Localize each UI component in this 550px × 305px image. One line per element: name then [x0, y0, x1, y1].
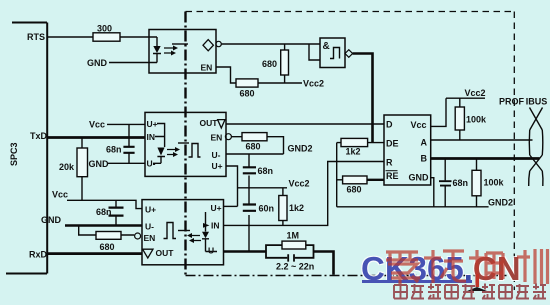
resistor 1k2 (pull-up on R line)	[282, 188, 284, 226]
barrier tick in U3	[178, 142, 189, 144]
optocoupler U1 (RTS) box	[149, 30, 216, 74]
resistor 680 (EN pull, horizontal)	[236, 79, 258, 87]
wire second input of AND gate	[309, 44, 320, 60]
dashed border right	[513, 12, 515, 291]
wire Vcc to U4 U+	[67, 200, 142, 208]
resistor R1 300	[93, 33, 120, 41]
isolation barrier (thick dash-dot)	[184, 12, 186, 276]
wire U+ of U3 down	[226, 166, 238, 206]
wire Vcc pin to Vcc2	[431, 98, 485, 126]
wire U- net GND2	[226, 153, 284, 155]
wire B line (thick)	[431, 157, 540, 160]
wire IN of U4 to R	[224, 162, 385, 226]
wire GND2 rail	[337, 206, 489, 208]
wire GND (thick) to U4 U-	[65, 224, 142, 227]
red antenna icon	[467, 274, 487, 291]
wire U+ of U4 up to Vcc2	[224, 205, 238, 207]
optocoupler U1 LED	[149, 37, 161, 63]
twisted pair braid	[529, 108, 543, 187]
dashed border top	[186, 11, 515, 13]
capacitor 60n	[248, 215, 250, 252]
wire GND to optocoupler U1	[109, 62, 149, 64]
wire RTS to resistor	[47, 36, 93, 38]
capacitor 68n (Vcc2-GND2)	[248, 154, 250, 204]
optocoupler U3 (TxD) box	[145, 112, 226, 176]
U3 LED	[153, 124, 165, 164]
wire RxD (thick)	[47, 252, 142, 255]
wire Vcc2 rail (mid)	[238, 187, 288, 189]
wire EN of U1 down to pull resistor	[216, 67, 236, 83]
wire Vcc to U3	[107, 123, 145, 125]
dash-dot border bottom	[186, 275, 510, 277]
capacitor 68n (B-GND2)	[444, 159, 446, 207]
optocoupler U4 (RxD) box	[142, 200, 224, 265]
optocoupler U1 output diamond	[203, 40, 213, 51]
capacitor 2.2~22n plates	[288, 254, 294, 261]
resistor 680 (EN of U3 to GND2)	[231, 137, 283, 154]
AND gate output diamond	[345, 50, 353, 58]
wire TxD (thick)	[47, 136, 145, 139]
wire AND output to DE (thick)	[353, 54, 373, 143]
red watermark overlay chars	[386, 249, 548, 284]
resistor 680 (EN of U4)	[79, 226, 135, 236]
wire GND pin to GND2	[431, 178, 434, 207]
monoflop pulse glyph	[330, 48, 340, 59]
wire pulls to GND2	[336, 143, 338, 207]
U3 schmitt pulse glyph	[189, 144, 201, 158]
wire GND to U3	[108, 162, 145, 164]
optocoupler U1 light arrows	[164, 48, 174, 53]
AND gate U2 with monoflop	[320, 38, 345, 68]
U4 light arrows (pointing left)	[191, 236, 201, 241]
U4 LED (right half)	[202, 212, 217, 252]
SPC3 chip edge bracket	[6, 23, 47, 274]
wire thick to bottom shield	[314, 252, 334, 275]
parallel RC loop	[266, 245, 314, 251]
U4 schmitt pulse glyph	[164, 223, 177, 239]
resistor 1M	[282, 241, 306, 249]
resistor 680 (vertical pull on RTS net)	[284, 44, 286, 83]
wire 680 to Vcc2	[258, 82, 302, 84]
wire resistor to optocoupler	[120, 36, 149, 38]
resistor 100k (B pull-down)	[476, 159, 478, 207]
capacitor 68n (TxD)	[128, 124, 130, 163]
barrier tick in U1	[172, 43, 188, 45]
U3 light arrows	[167, 150, 176, 155]
RS485 transceiver U5 box	[384, 115, 431, 185]
resistor 100k (A pull-up)	[459, 98, 461, 140]
resistor 20k vertical	[81, 138, 83, 201]
resistor 1k2 (DE)	[337, 142, 384, 144]
barrier tick in U4	[178, 230, 190, 232]
wire U- of U4 (thick)	[224, 250, 267, 253]
wire A line	[431, 139, 533, 141]
capacitor 68n (RxD side)	[115, 200, 117, 225]
wire OUT to D pin of U5	[226, 123, 384, 125]
wire diamond output net	[221, 43, 320, 45]
resistor 680 (RE)	[337, 179, 343, 181]
bottom red slogan (hand-drawn CJK strokes)	[394, 284, 546, 300]
